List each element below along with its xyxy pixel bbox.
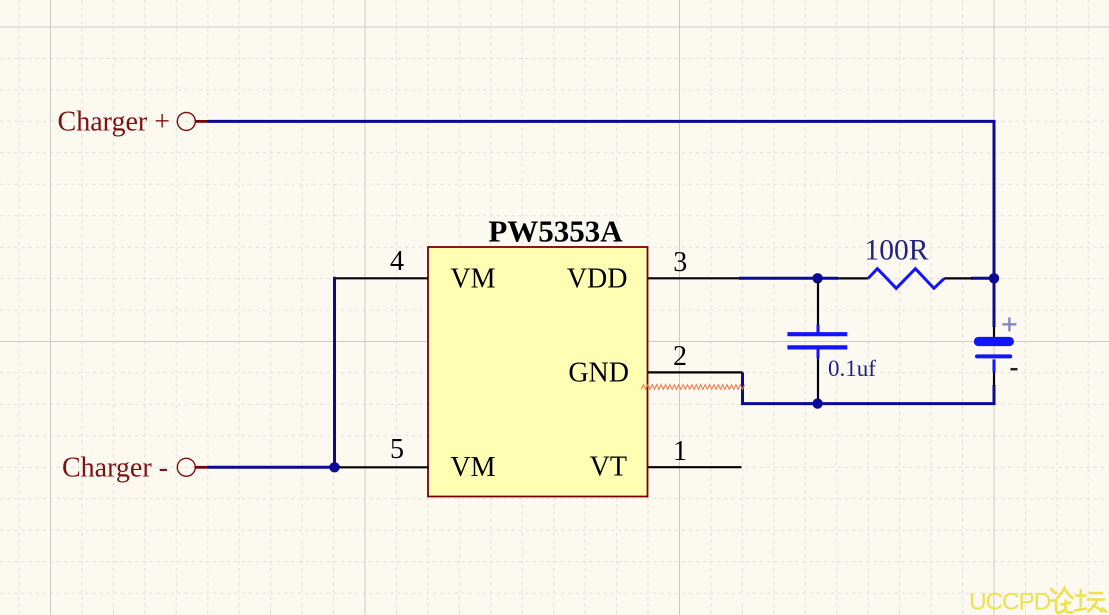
wire left of resistor to pin3 [739, 277, 838, 280]
svg-text:PW5353A: PW5353A [488, 214, 623, 249]
wire from pin2 step down and along bottom to battery [743, 372, 995, 403]
svg-text:Charger +: Charger + [58, 107, 170, 138]
junction at capacitor top [812, 273, 822, 283]
svg-text:VM: VM [450, 452, 495, 483]
port Charger + [58, 107, 208, 138]
wire from node down to battery [993, 278, 996, 327]
svg-text:2: 2 [673, 341, 687, 372]
pin 4 VM [335, 246, 496, 295]
capacitor C 0.1uf [787, 281, 847, 401]
junction on Charger- net [329, 462, 339, 472]
wire node junction (VDD net, right) [989, 273, 999, 283]
svg-text:100R: 100R [865, 234, 929, 266]
wire right of resistor [971, 277, 994, 280]
battery / polarized cap [974, 317, 1018, 386]
wire Charger- horizontal [208, 466, 341, 469]
svg-text:GND: GND [568, 358, 629, 389]
svg-text:VM: VM [450, 264, 495, 295]
IC U PW5353A [428, 214, 648, 497]
pin 5 VM [340, 434, 496, 483]
pin 2 GND [568, 341, 742, 389]
watermark UCCPD forum [969, 588, 1106, 615]
svg-text:VT: VT [590, 452, 627, 483]
svg-text:UCCPD: UCCPD [969, 589, 1051, 615]
svg-text:1: 1 [673, 436, 687, 467]
port Charger - [62, 453, 208, 484]
junction at capacitor bottom [812, 398, 822, 408]
wire vertical joining pin4 to Charger- net [335, 278, 337, 467]
pin 3 VDD [567, 247, 739, 295]
error squiggle under GND pin [641, 385, 744, 390]
wire from Charger+ to top-right corner down to node [208, 121, 995, 278]
svg-text:5: 5 [390, 434, 404, 465]
pin 1 VT [590, 436, 742, 483]
svg-text:4: 4 [390, 246, 404, 277]
svg-text:3: 3 [673, 247, 687, 278]
svg-text:0.1uf: 0.1uf [828, 356, 876, 381]
svg-text:Charger -: Charger - [62, 453, 168, 484]
svg-text:VDD: VDD [567, 264, 628, 295]
resistor R 100R [837, 269, 973, 289]
